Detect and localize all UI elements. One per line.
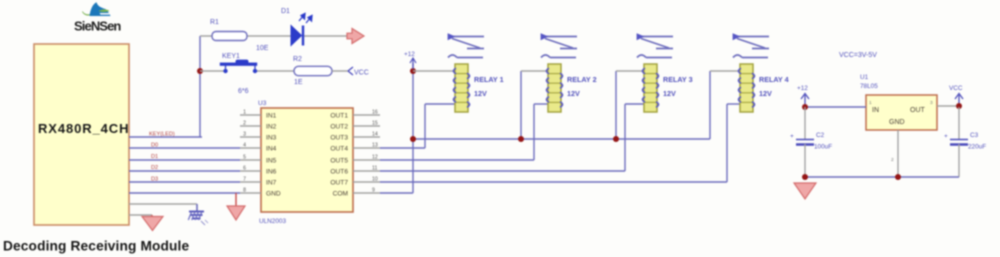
svg-text:OUT5: OUT5: [330, 158, 348, 165]
svg-text:R1: R1: [210, 19, 219, 26]
svg-text:IN5: IN5: [266, 158, 277, 165]
svg-text:78L05: 78L05: [860, 83, 878, 90]
svg-text:GND: GND: [266, 191, 281, 198]
svg-text:COM: COM: [333, 191, 348, 198]
svg-text:RELAY 4: RELAY 4: [759, 75, 789, 84]
svg-text:RELAY 1: RELAY 1: [474, 75, 504, 84]
svg-text:VCC=3V-5V: VCC=3V-5V: [839, 52, 877, 59]
svg-text:OUT7: OUT7: [330, 180, 348, 187]
svg-text:RELAY 3: RELAY 3: [663, 75, 693, 84]
svg-text:3: 3: [243, 132, 246, 138]
svg-text:D3: D3: [151, 176, 158, 182]
svg-text:IN6: IN6: [266, 169, 277, 176]
svg-text:100uF: 100uF: [814, 144, 832, 151]
svg-text:IN7: IN7: [266, 180, 277, 187]
svg-text:RELAY 2: RELAY 2: [567, 75, 597, 84]
svg-text:15: 15: [372, 121, 378, 127]
svg-text:IN1: IN1: [266, 113, 277, 120]
svg-text:C3: C3: [970, 132, 979, 139]
svg-text:10: 10: [372, 177, 378, 183]
svg-text:12V: 12V: [474, 89, 487, 98]
svg-text:RX480R_4CH: RX480R_4CH: [38, 121, 129, 136]
svg-text:220uF: 220uF: [968, 144, 986, 151]
svg-text:GND: GND: [889, 119, 905, 126]
svg-text:4: 4: [243, 143, 246, 149]
svg-text:ULN2003: ULN2003: [259, 218, 286, 225]
svg-text:VCC: VCC: [354, 70, 369, 77]
svg-text:C2: C2: [816, 132, 825, 139]
svg-text:2: 2: [891, 157, 894, 163]
svg-text:7: 7: [243, 177, 246, 183]
svg-text:12V: 12V: [663, 89, 676, 98]
svg-text:VCC: VCC: [949, 85, 963, 92]
svg-text:SieNSen: SieNSen: [74, 19, 121, 34]
svg-text:16: 16: [372, 110, 378, 116]
svg-text:OUT3: OUT3: [330, 135, 348, 142]
svg-text:D2: D2: [151, 165, 158, 171]
svg-text:IN2: IN2: [266, 124, 277, 131]
svg-text:OUT1: OUT1: [330, 113, 348, 120]
svg-text:1: 1: [869, 100, 872, 106]
svg-text:3: 3: [930, 100, 933, 106]
svg-text:+12: +12: [404, 51, 415, 58]
svg-text:D0: D0: [151, 143, 158, 149]
svg-text:KEY1: KEY1: [222, 53, 240, 60]
svg-text:D1: D1: [281, 8, 290, 15]
svg-text:12V: 12V: [759, 89, 772, 98]
svg-text:2: 2: [243, 121, 246, 127]
svg-text:D1: D1: [151, 154, 158, 160]
svg-text:U1: U1: [860, 74, 869, 81]
svg-text:+12: +12: [797, 85, 808, 92]
svg-text:5: 5: [243, 155, 246, 161]
svg-text:1: 1: [243, 110, 246, 116]
svg-text:+: +: [790, 133, 794, 140]
svg-text:14: 14: [372, 132, 378, 138]
svg-text:R2: R2: [293, 56, 302, 63]
svg-text:6*6: 6*6: [238, 88, 249, 95]
svg-text:OUT6: OUT6: [330, 169, 348, 176]
svg-text:8: 8: [243, 188, 246, 194]
svg-text:OUT: OUT: [910, 107, 926, 114]
svg-text:6: 6: [243, 166, 246, 172]
svg-text:IN: IN: [872, 107, 879, 114]
svg-text:12: 12: [372, 155, 378, 161]
svg-text:OUT2: OUT2: [330, 124, 348, 131]
svg-text:12V: 12V: [567, 89, 580, 98]
svg-text:U3: U3: [258, 100, 267, 107]
svg-text:9: 9: [372, 188, 375, 194]
svg-text:KEY(LED): KEY(LED): [149, 132, 175, 138]
svg-text:11: 11: [372, 166, 377, 172]
svg-text:OUT4: OUT4: [330, 146, 348, 153]
svg-text:13: 13: [372, 143, 378, 149]
svg-text:1E: 1E: [294, 79, 303, 86]
svg-text:IN3: IN3: [266, 135, 277, 142]
svg-text:+: +: [944, 133, 948, 140]
svg-text:IN4: IN4: [266, 146, 277, 153]
svg-text:10E: 10E: [256, 45, 269, 52]
svg-text:Decoding Receiving Module: Decoding Receiving Module: [3, 239, 190, 254]
